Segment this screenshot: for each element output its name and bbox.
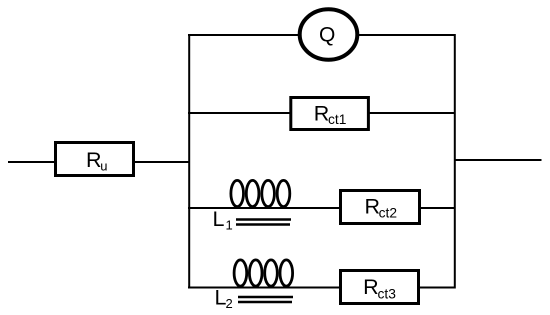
- inductor L2 core lines: [238, 296, 293, 299]
- svg-text:ct3: ct3: [378, 286, 397, 301]
- resistor Rct2: [341, 191, 420, 224]
- wire Rct1 branch right: [368, 112, 455, 114]
- svg-text:Q: Q: [319, 24, 335, 47]
- resistor Ru: [56, 143, 134, 176]
- wire Rct2 branch right: [419, 207, 455, 209]
- svg-text:2: 2: [226, 296, 233, 311]
- wire output: [454, 159, 542, 161]
- svg-text:ct2: ct2: [379, 206, 397, 221]
- svg-text:u: u: [100, 158, 107, 173]
- svg-text:1: 1: [226, 217, 233, 232]
- wire Rct3 branch right: [418, 287, 455, 289]
- svg-text:R: R: [363, 275, 379, 299]
- svg-text:ct1: ct1: [328, 112, 346, 127]
- wire Ru to node: [135, 161, 190, 163]
- node right bus: [454, 34, 456, 289]
- wire Q branch right: [357, 34, 455, 36]
- svg-text:R: R: [86, 148, 102, 172]
- CPE Q: [300, 9, 358, 59]
- node left bus: [188, 34, 190, 289]
- wire L2-Rct3 branch: [188, 287, 341, 289]
- wire Q branch left: [188, 34, 300, 36]
- wire input: [8, 161, 54, 163]
- inductor L1 coils: [231, 180, 290, 206]
- resistor Rct1: [291, 98, 369, 130]
- svg-text:R: R: [314, 102, 330, 126]
- inductor L2 coils: [234, 260, 293, 286]
- wire L1-Rct2 branch: [188, 207, 341, 209]
- svg-text:L: L: [213, 207, 225, 231]
- inductor L1 core lines: [236, 218, 291, 221]
- wire Rct1 branch left: [188, 112, 292, 114]
- resistor Rct3: [341, 271, 419, 304]
